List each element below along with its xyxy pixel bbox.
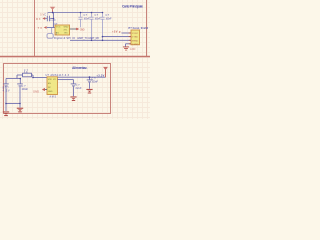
svg-text:U? AMS1117-3.3: U? AMS1117-3.3: [46, 74, 70, 77]
svg-text:VCC: VCC: [56, 27, 61, 29]
svg-text:TX: TX: [38, 26, 43, 30]
svg-text:RX: RX: [36, 17, 41, 21]
svg-text:C?: C?: [106, 14, 110, 17]
svg-text:2 TXD: 2 TXD: [132, 37, 139, 39]
svg-text:GND: GND: [64, 27, 69, 29]
svg-text:AMS: AMS: [50, 95, 57, 98]
svg-text:3 RXD: 3 RXD: [132, 40, 139, 42]
svg-text:Alimentaz.: Alimentaz.: [72, 66, 88, 70]
svg-text:VO: VO: [53, 79, 56, 81]
svg-text:22uF: 22uF: [76, 87, 82, 90]
svg-text:+5V p: +5V p: [112, 29, 121, 33]
svg-text:4 GND: 4 GND: [132, 44, 139, 46]
svg-text:100nF: 100nF: [95, 18, 101, 21]
svg-text:Digital & SPI IO: Digital & SPI IO: [54, 36, 75, 40]
svg-text:EN: EN: [48, 83, 51, 85]
svg-text:C?: C?: [84, 14, 88, 17]
svg-text:1 VCC: 1 VCC: [132, 33, 139, 35]
svg-text:GND: GND: [48, 91, 53, 93]
svg-text:100uF: 100uF: [22, 88, 29, 91]
svg-text:P? Conn_01x04: P? Conn_01x04: [129, 27, 149, 30]
svg-text:1A: 1A: [24, 71, 28, 74]
svg-text:VIN: VIN: [48, 79, 52, 81]
svg-text:+3.3V: +3.3V: [96, 74, 104, 78]
svg-text:C?: C?: [44, 14, 49, 17]
svg-text:UART_TX UART_RX: UART_TX UART_RX: [77, 36, 99, 40]
svg-text:100nF: 100nF: [84, 18, 90, 21]
svg-text:NC: NC: [48, 87, 52, 89]
svg-text:Carte Principale: Carte Principale: [122, 5, 143, 9]
svg-text:C?: C?: [95, 14, 99, 17]
svg-text:100nF: 100nF: [106, 18, 112, 21]
svg-text:4.2V: 4.2V: [3, 90, 10, 93]
svg-text:GND: GND: [33, 89, 39, 93]
svg-text:1uF: 1uF: [50, 19, 56, 22]
svg-text:RX: RX: [65, 33, 69, 35]
svg-text:GND: GND: [80, 29, 85, 32]
svg-text:GND: GND: [130, 48, 136, 51]
svg-text:100nF: 100nF: [92, 81, 99, 84]
